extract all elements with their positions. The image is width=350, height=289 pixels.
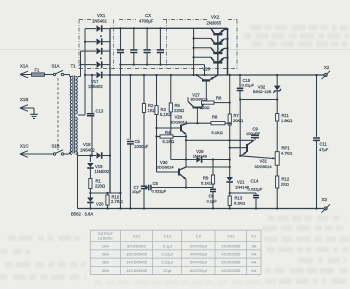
svg-text:C11: C11 — [320, 142, 328, 147]
svg-text:1N4002: 1N4002 — [95, 169, 110, 174]
svg-text:0.022µF: 0.022µF — [152, 189, 167, 194]
svg-text:T1: T1 — [71, 64, 77, 69]
svg-text:3DG9014: 3DG9014 — [157, 165, 175, 170]
svg-text:20A: 20A — [102, 252, 109, 257]
svg-text:16X1N5402: 16X1N5402 — [126, 252, 148, 257]
svg-text:OUTPUT: OUTPUT — [98, 232, 114, 236]
svg-text:C13: C13 — [164, 233, 172, 238]
svg-text:47µF: 47µF — [319, 147, 329, 152]
svg-text:13.8VDC: 13.8VDC — [98, 237, 113, 241]
svg-text:4X2N3055: 4X2N3055 — [221, 252, 241, 257]
svg-text:25A: 25A — [102, 260, 109, 265]
svg-text:5.1KΩ: 5.1KΩ — [201, 180, 212, 185]
svg-text:5.1KΩ: 5.1KΩ — [160, 112, 172, 117]
svg-text:VX2: VX2 — [211, 14, 220, 19]
svg-text:6A: 6A — [251, 268, 256, 273]
svg-text:22µf: 22µf — [163, 268, 172, 273]
svg-text:220Ω: 220Ω — [95, 183, 105, 188]
svg-text:20KΩ: 20KΩ — [233, 118, 243, 123]
svg-text:4A: 4A — [251, 252, 256, 257]
svg-text:S1A: S1A — [52, 64, 60, 69]
svg-text:B562 · 3.6A: B562 · 3.6A — [71, 212, 93, 217]
svg-text:V18: V18 — [83, 142, 91, 147]
svg-text:3DG9014: 3DG9014 — [255, 164, 273, 169]
svg-text:1N5402: 1N5402 — [88, 84, 103, 89]
svg-text:10µF: 10µF — [132, 189, 142, 194]
svg-text:3A: 3A — [251, 243, 256, 248]
svg-text:0.1µf: 0.1µf — [163, 243, 173, 248]
svg-text:5X2N3055: 5X2N3055 — [221, 260, 241, 265]
svg-text:0.22µf: 0.22µf — [162, 260, 174, 265]
svg-text:V26: V26 — [203, 67, 211, 72]
svg-text:4A: 4A — [251, 260, 256, 265]
svg-text:R4: R4 — [165, 130, 171, 135]
svg-text:10A: 10A — [102, 243, 109, 248]
svg-text:VX1: VX1 — [97, 13, 106, 18]
svg-text:VX2: VX2 — [227, 233, 235, 238]
svg-text:5.1KΩ: 5.1KΩ — [163, 139, 175, 144]
svg-text:X2: X2 — [324, 65, 330, 70]
svg-text:X3: X3 — [322, 197, 328, 202]
svg-text:0.022µF: 0.022µF — [248, 187, 263, 192]
svg-text:V20: V20 — [96, 202, 104, 207]
svg-text:5.1KΩ: 5.1KΩ — [212, 130, 223, 135]
svg-text:F1: F1 — [252, 233, 257, 238]
svg-text:C13: C13 — [96, 108, 104, 113]
svg-text:CX: CX — [196, 233, 202, 238]
svg-text:2KΩ: 2KΩ — [281, 181, 289, 186]
svg-text:X1B: X1B — [20, 97, 28, 102]
svg-text:6X4700µf: 6X4700µf — [190, 268, 208, 273]
svg-text:14X1N5402: 14X1N5402 — [126, 268, 148, 273]
svg-text:4700µF: 4700µF — [139, 19, 154, 24]
svg-text:5X4700µf: 5X4700µf — [190, 260, 208, 265]
svg-text:220Ω: 220Ω — [200, 105, 210, 110]
svg-text:220Ω: 220Ω — [174, 108, 184, 113]
svg-text:8X1N5402: 8X1N5402 — [127, 243, 147, 248]
svg-text:R6: R6 — [216, 95, 222, 100]
svg-text:X1C: X1C — [20, 144, 29, 149]
svg-text:2N3055: 2N3055 — [207, 20, 222, 25]
svg-text:CX: CX — [145, 13, 151, 18]
svg-text:VX1: VX1 — [133, 233, 141, 238]
svg-text:C6: C6 — [153, 181, 159, 186]
svg-text:2X2N3055: 2X2N3055 — [221, 243, 241, 248]
svg-text:F1: F1 — [35, 68, 41, 73]
svg-text:1N5402: 1N5402 — [92, 19, 107, 24]
svg-text:6.2KΩ: 6.2KΩ — [234, 200, 245, 205]
svg-text:0.1µF: 0.1µF — [207, 198, 218, 203]
svg-text:30A: 30A — [102, 268, 109, 273]
svg-text:4X4700µf: 4X4700µf — [190, 252, 208, 257]
svg-text:2X4700µf: 2X4700µf — [190, 243, 208, 248]
svg-text:0.22µf: 0.22µf — [162, 252, 174, 257]
svg-text:1N4148: 1N4148 — [193, 154, 208, 159]
svg-text:1000µF: 1000µF — [134, 144, 149, 149]
svg-text:BS62·12B: BS62·12B — [253, 89, 272, 94]
svg-text:1.8KΩ: 1.8KΩ — [281, 118, 292, 123]
svg-text:100µPF: 100µPF — [246, 131, 261, 136]
svg-text:14X1N5402: 14X1N5402 — [126, 260, 148, 265]
svg-text:C14: C14 — [251, 179, 259, 184]
svg-text:V31: V31 — [260, 159, 268, 164]
svg-text:0.01µF: 0.01µF — [242, 83, 255, 88]
svg-text:1N5402: 1N5402 — [80, 147, 95, 152]
svg-text:S1B: S1B — [52, 144, 60, 149]
svg-text:X1A: X1A — [20, 64, 28, 69]
svg-text:6X2N3055: 6X2N3055 — [221, 268, 241, 273]
svg-text:4.7KΩ: 4.7KΩ — [281, 151, 292, 156]
svg-text:R8: R8 — [212, 115, 218, 120]
